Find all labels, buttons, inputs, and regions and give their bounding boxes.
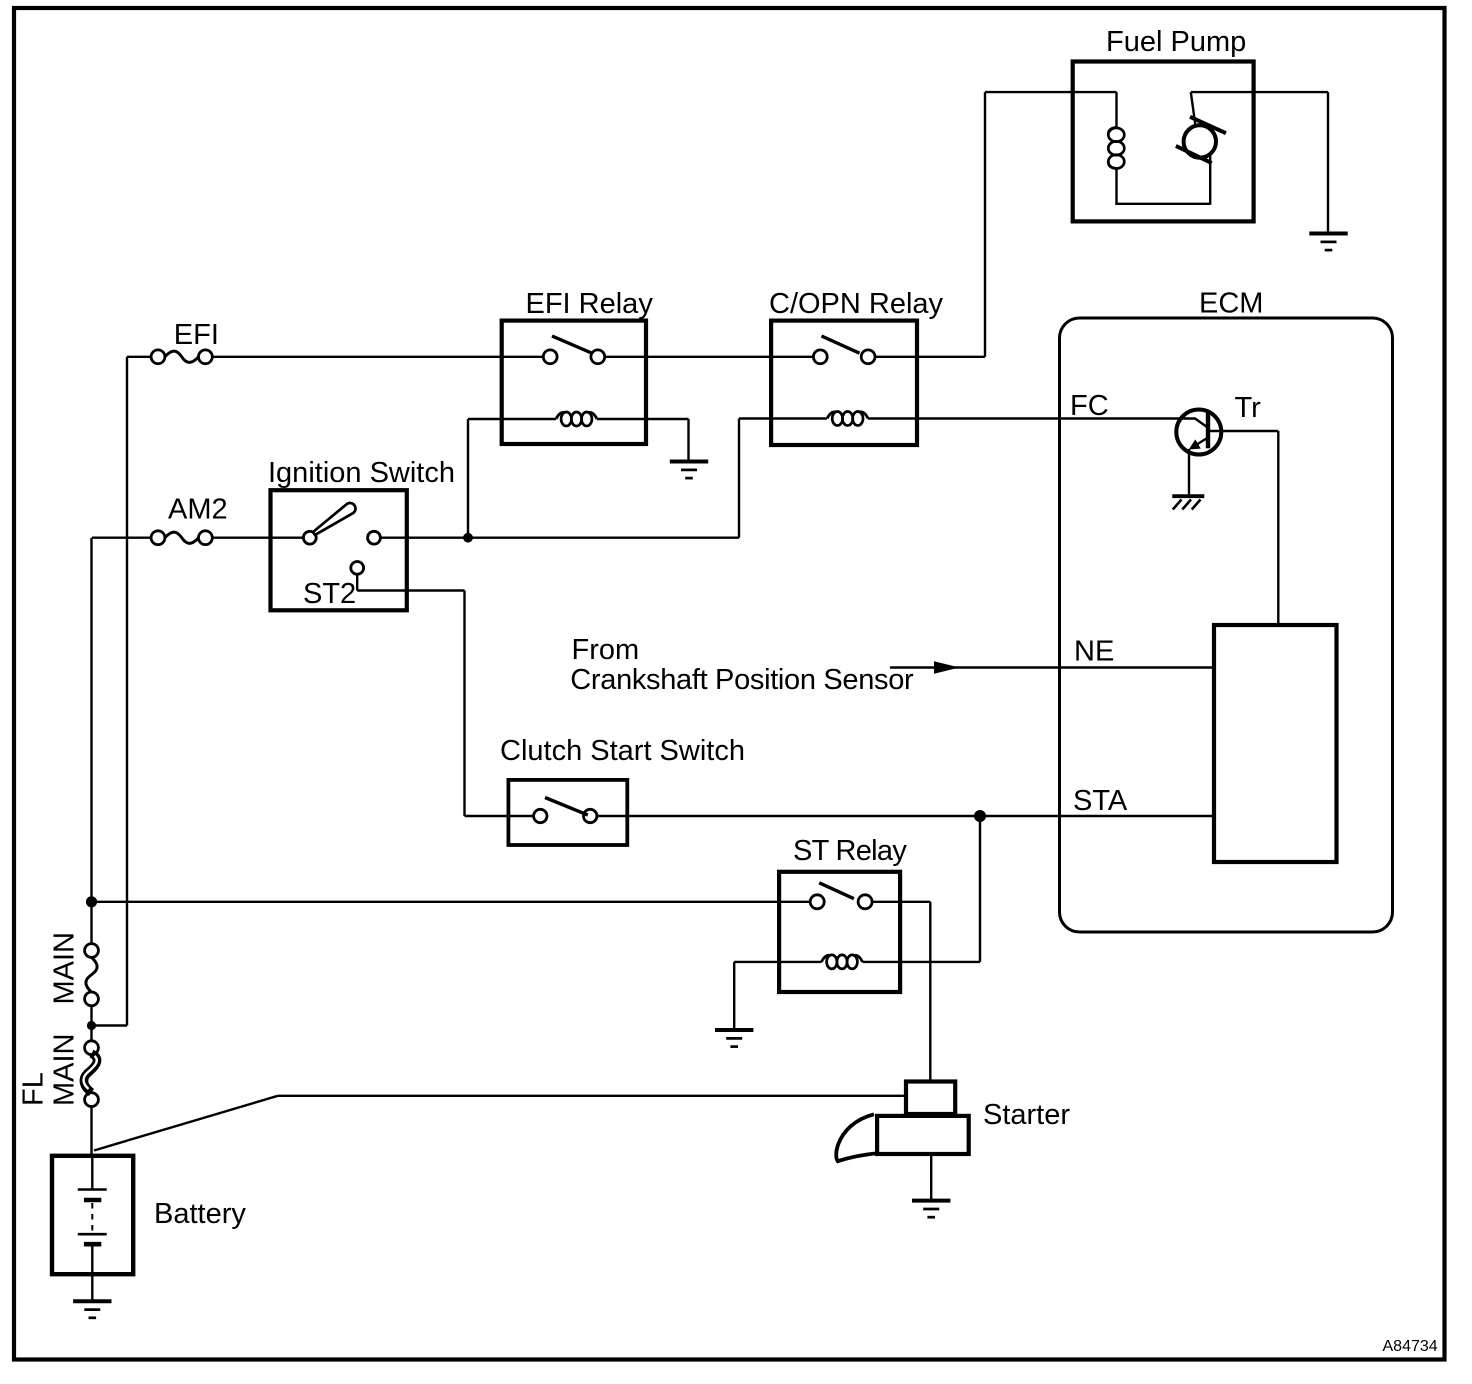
ECM box U1: [1060, 318, 1393, 932]
relay ST switch blade: [819, 883, 854, 899]
battery BAT1 plates: [91, 1157, 93, 1189]
relay ST switch contacts: [810, 895, 824, 909]
chassis ground (ECM internal): [1172, 494, 1204, 498]
wire clutch switch to ECM STA (net STA): [597, 815, 1214, 817]
switch ignition lever: [313, 503, 356, 535]
ground ST relay: [715, 1028, 753, 1032]
svg-text:ECM: ECM: [1199, 288, 1263, 320]
svg-text:ST2: ST2: [303, 578, 356, 610]
wire fuel pump coil top lead: [1115, 92, 1117, 127]
wire FL to battery: [90, 1107, 92, 1156]
svg-text:Tr: Tr: [1235, 392, 1262, 424]
ECM internal block: [1214, 625, 1337, 862]
svg-text:EFI Relay: EFI Relay: [526, 288, 654, 320]
wire AM2 fuse to ignition switch: [212, 537, 303, 539]
svg-text:MAIN: MAIN: [49, 1034, 81, 1107]
svg-text:Fuel Pump: Fuel Pump: [1106, 26, 1246, 58]
fuel pump box: [1073, 62, 1254, 222]
starter solenoid box: [906, 1082, 955, 1115]
wire ST2 riser into clutch switch: [465, 815, 534, 817]
svg-text:FL: FL: [18, 1072, 50, 1106]
svg-text:From: From: [572, 634, 640, 666]
wire EFI relay coil left lead: [468, 418, 556, 420]
wire EFI riser (left, x=127): [126, 357, 128, 1026]
fuel pump motor M1: [1184, 125, 1216, 157]
wire emitter to chassis ground: [1188, 449, 1190, 495]
wire ST relay coil to ground: [734, 961, 821, 963]
junction node battery/ST-relay: [86, 896, 97, 907]
relay ST box: [779, 872, 900, 992]
transistor Tr: [1176, 410, 1221, 455]
wire fuel pump feed (left, from C/OPN relay): [985, 91, 1117, 93]
arrow NE signal: [934, 661, 960, 674]
wire C/OPN switch to fuel pump riser: [875, 356, 985, 358]
wire transistor collector to driver block: [1210, 430, 1279, 432]
ground starter: [912, 1199, 950, 1203]
switch clutch start box: [508, 780, 627, 845]
wire AM2 riser (left, x=92): [90, 538, 92, 944]
wire EFI relay switch to C/OPN relay: [605, 356, 814, 358]
wire NE input line: [890, 666, 1214, 668]
starter drive housing: [836, 1114, 879, 1161]
junction node EFI riser / FL: [87, 1021, 96, 1030]
fuse EFI: [151, 350, 165, 364]
fuse MAIN: [85, 944, 99, 958]
battery box: [52, 1156, 133, 1274]
wire fuel pump bottom: [1115, 203, 1210, 205]
wire fuel pump to ground: [1191, 91, 1328, 93]
starter motor box: [877, 1116, 969, 1154]
fusible link FL MAIN: [85, 1041, 99, 1055]
svg-text:Clutch Start Switch: Clutch Start Switch: [500, 735, 745, 767]
svg-text:C/OPN Relay: C/OPN Relay: [769, 288, 944, 320]
svg-text:MAIN: MAIN: [49, 932, 81, 1005]
relay EFI box: [502, 321, 646, 444]
wire MAIN fuse to FL junction: [90, 1006, 92, 1041]
wire C/OPN coil to ECM FC (net FC): [868, 417, 1196, 419]
junction node ignition/EFI-relay-coil: [463, 533, 473, 543]
transistor Tr base link: [1195, 419, 1207, 428]
svg-text:Starter: Starter: [983, 1099, 1070, 1131]
svg-text:FC: FC: [1070, 390, 1109, 422]
relay EFI coil: [556, 412, 564, 419]
wire AM2 line from left riser to fuse: [92, 537, 151, 539]
relay C/OPN switch contacts: [813, 350, 827, 364]
ground fuel pump: [1309, 232, 1347, 236]
wire C/OPN coil left lead: [739, 417, 827, 419]
svg-text:Ignition Switch: Ignition Switch: [268, 457, 455, 489]
relay EFI switch blade: [552, 336, 592, 353]
junction node STA / ST relay coil: [974, 810, 986, 822]
wire fuel pump motor top lead: [1191, 92, 1196, 126]
wire EFI line from left riser to fuse: [127, 356, 151, 358]
svg-text:A84734: A84734: [1383, 1338, 1438, 1355]
wire riser junction to EFI relay coil: [467, 419, 469, 538]
wire starter to ground: [930, 1154, 932, 1199]
fuse AM2: [151, 531, 165, 545]
svg-text:NE: NE: [1074, 636, 1114, 668]
relay C/OPN coil: [827, 412, 835, 419]
svg-text:AM2: AM2: [168, 494, 228, 526]
wire fuel pump coil bottom lead: [1115, 168, 1117, 203]
wire EFI relay coil to ground: [597, 418, 689, 420]
ground EFI relay: [670, 460, 708, 464]
switch ignition IG2 contact: [368, 531, 381, 544]
relay C/OPN switch blade: [822, 336, 860, 353]
relay ST coil: [822, 955, 830, 962]
wire fuel pump motor bottom lead: [1209, 155, 1211, 205]
switch ignition AM2 contact: [303, 531, 316, 544]
wire battery node to ST relay switch: [92, 901, 811, 903]
switch clutch start blade: [545, 798, 588, 816]
switch clutch start contacts: [534, 809, 547, 822]
wire ST2 lead: [356, 574, 358, 590]
svg-text:Battery: Battery: [154, 1198, 246, 1230]
svg-text:Crankshaft Position Sensor: Crankshaft Position Sensor: [570, 664, 914, 696]
transistor Tr emitter: [1191, 439, 1207, 449]
switch ignition ST2 contact: [351, 562, 364, 575]
wire ST relay switch to starter: [872, 901, 930, 903]
svg-text:ST Relay: ST Relay: [793, 835, 907, 867]
wire battery positive to starter: [94, 1096, 278, 1151]
relay C/OPN box: [771, 321, 917, 445]
switch ignition box: [271, 490, 407, 610]
ground battery: [73, 1299, 111, 1303]
wire STA junction to ST relay coil: [979, 816, 981, 962]
wire EFI fuse to EFI relay: [212, 356, 543, 358]
svg-text:STA: STA: [1073, 785, 1128, 817]
relay EFI switch contacts: [543, 350, 557, 364]
svg-text:EFI: EFI: [174, 319, 219, 351]
fuel pump motor coil L1: [1108, 127, 1116, 134]
wire ignition switch output to junction: [380, 537, 739, 539]
